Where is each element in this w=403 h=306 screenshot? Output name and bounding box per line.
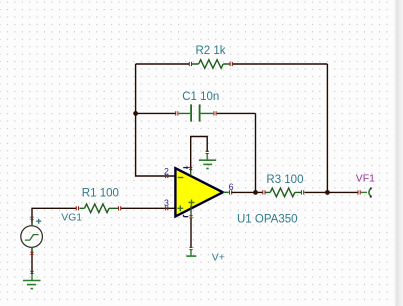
svg-text:3: 3 [164, 198, 169, 208]
plus polarity mark [36, 219, 41, 224]
V+ supply jumper [186, 247, 196, 256]
wire right vertical from C1 corner down to output row [255, 113, 257, 192]
op-amp U1 [166, 166, 232, 218]
ground above op-amp (hook) [199, 151, 216, 168]
output terminal VF1 [358, 188, 372, 198]
svg-text:R1 100: R1 100 [82, 188, 119, 200]
top power arrow [183, 167, 187, 169]
svg-text:R3 100: R3 100 [266, 174, 303, 186]
voltage source VG1 [21, 217, 43, 254]
wire left vertical feedback down to pin2 [136, 64, 175, 176]
wire VG1 to R1 to pin3 [32, 208, 175, 226]
ground under VG1 [23, 271, 41, 288]
node junction at output right of R3 [325, 190, 330, 195]
wire output row: opamp output to VF1 [231, 191, 359, 193]
svg-text:2: 2 [164, 167, 169, 177]
resistor R1 [76, 204, 120, 213]
svg-text:VG1: VG1 [61, 212, 82, 223]
minus input mark [178, 177, 184, 179]
node junction at C1 left [133, 111, 138, 116]
wire opamp top power to ground hook [191, 137, 208, 172]
top power pin stub into triangle [190, 166, 192, 169]
plus power mark [189, 200, 195, 206]
bottom power tick glyph [184, 215, 189, 217]
svg-text:C1 10n: C1 10n [182, 91, 219, 103]
node junction at output left of R3 [253, 190, 258, 195]
wire C1 row from junction to right corner [136, 112, 256, 114]
svg-text:6: 6 [229, 182, 234, 192]
pin marks [166, 174, 168, 178]
resistor R3 [263, 188, 304, 197]
svg-text:V+: V+ [212, 253, 225, 264]
wire VG1 bottom to ground [31, 248, 33, 274]
svg-text:R2 1k: R2 1k [196, 45, 226, 57]
resistor R2 [189, 60, 232, 69]
svg-text:U1 OPA350: U1 OPA350 [237, 213, 298, 225]
wire R2 leads row [136, 63, 328, 65]
plus input mark [177, 205, 183, 211]
bottom power pin stub [190, 206, 192, 218]
svg-text:VF1: VF1 [356, 174, 375, 185]
wire opamp bottom power to V+ [190, 218, 192, 249]
wire right vertical from R2 corner down to output row [326, 64, 328, 192]
capacitor C1 [176, 104, 216, 121]
output green stub [223, 191, 229, 193]
